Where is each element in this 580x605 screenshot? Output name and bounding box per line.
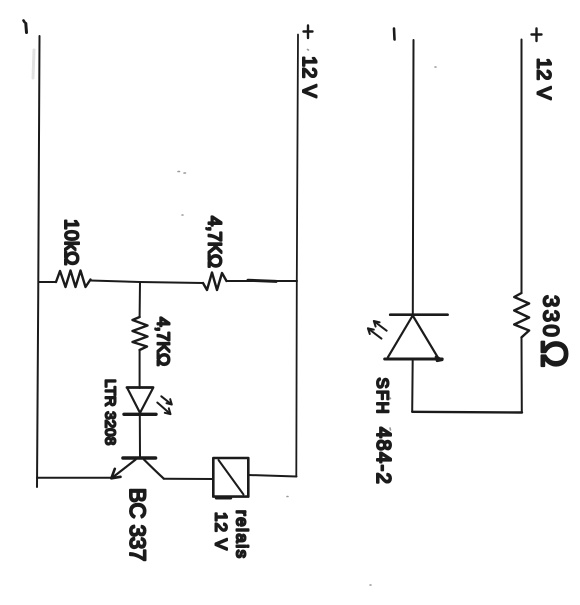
svg-text:12 V: 12 V xyxy=(298,56,320,98)
relay K1 bottom tick xyxy=(216,497,231,499)
svg-text:330: 330 xyxy=(539,295,564,339)
wire LED down to bottom xyxy=(411,359,414,412)
svg-text:4,7KΩ: 4,7KΩ xyxy=(205,216,226,268)
transistor Q1 emitter with arrow xyxy=(111,460,135,479)
LED D1 emission arrow 2 xyxy=(157,403,170,415)
wire right rail lower right circuit xyxy=(521,337,523,412)
plus terminal left circuit xyxy=(304,26,313,39)
wire R3 to LED xyxy=(139,350,141,388)
wire right rail +12V left circuit xyxy=(296,35,298,477)
node junction at divider xyxy=(139,282,141,317)
LED D1 triangle xyxy=(128,389,153,413)
speck dots scan artifacts xyxy=(178,50,436,586)
resistor R2 4.7k zigzag xyxy=(203,273,227,291)
svg-text:4,7KΩ: 4,7KΩ xyxy=(154,317,174,366)
wire left rail (negative) xyxy=(37,36,40,487)
LED D2 anode bar end blob xyxy=(436,357,442,361)
LED D1 LTR3208 anode bar xyxy=(127,386,153,389)
wire top horizontal segment A xyxy=(39,281,56,283)
plus terminal right circuit xyxy=(532,29,542,42)
svg-text:SFH: SFH xyxy=(373,378,391,416)
svg-text:484-2: 484-2 xyxy=(372,427,394,485)
wire bottom right circuit xyxy=(412,411,522,414)
minus terminal left circuit xyxy=(24,21,27,33)
svg-text:12 V: 12 V xyxy=(212,512,231,551)
wire top horizontal segment C xyxy=(227,280,298,282)
LED D2 emission arrow 2 xyxy=(368,328,382,338)
wire collector to relay xyxy=(164,478,214,480)
LED D2 emission arrow 1 xyxy=(374,321,387,331)
relay K1 diagonal xyxy=(219,460,244,495)
LED D1 cathode bar xyxy=(124,413,156,416)
transistor Q1 base bar xyxy=(123,456,156,460)
LED D2 SFH484 cathode bar xyxy=(390,313,447,316)
svg-text:Ω: Ω xyxy=(534,340,575,368)
svg-text:10kΩ: 10kΩ xyxy=(60,219,81,266)
wire top horizontal segment B xyxy=(91,281,204,284)
svg-text:BC 337: BC 337 xyxy=(125,488,150,561)
resistor R3 4.7k vertical zigzag xyxy=(133,317,148,350)
wire LED to transistor base xyxy=(139,414,141,456)
transistor Q1 collector xyxy=(144,460,164,479)
wire bottom left (emitter to ground rail) xyxy=(37,477,114,479)
svg-text:relais: relais xyxy=(233,510,252,560)
svg-text:LTR 3208: LTR 3208 xyxy=(102,379,119,445)
relay K1 box xyxy=(213,458,248,497)
resistor R4 330 zigzag xyxy=(514,293,529,337)
LED D1 emission arrow 1 xyxy=(161,396,172,404)
minus terminal right circuit xyxy=(393,29,396,40)
wire left rail right circuit xyxy=(412,40,415,315)
wire right rail upper right circuit xyxy=(521,40,523,294)
LED D2 triangle xyxy=(388,316,439,359)
wire relay to +12V rail xyxy=(248,475,296,477)
resistor R1 10k zigzag xyxy=(56,271,91,288)
svg-text:12 V: 12 V xyxy=(533,58,555,100)
faint smudge near left rail top xyxy=(33,50,34,78)
LED D2 anode bar xyxy=(385,358,443,361)
